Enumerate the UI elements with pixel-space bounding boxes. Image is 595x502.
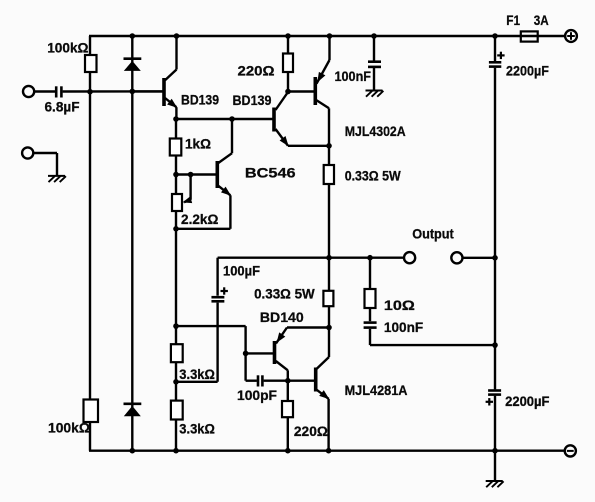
- wire node B vertical x245: [244, 326, 246, 381]
- label C6 2200uF: [506, 64, 549, 80]
- wire node B horizontal y326: [176, 325, 246, 327]
- node junction 3: [285, 33, 291, 39]
- resistor R3 220R: [283, 54, 293, 73]
- wire right supply column x495: [494, 36, 496, 451]
- label C7 2200uF: [505, 394, 550, 410]
- diode D2: [124, 404, 142, 417]
- svg-text:3.3kΩ: 3.3kΩ: [179, 367, 215, 383]
- wire main output column x329: [328, 146, 330, 328]
- svg-text:0.33Ω 5W: 0.33Ω 5W: [345, 169, 402, 185]
- terminal V+ plus: [565, 30, 577, 42]
- ground bottom right: [486, 481, 504, 487]
- terminal output left: [404, 252, 415, 263]
- wire Q6 base: [288, 380, 314, 382]
- label R5 2.2k: [181, 212, 218, 228]
- node junction 10: [229, 116, 235, 122]
- wire Q6 emitter: [317, 390, 330, 451]
- node junction 6: [492, 33, 498, 39]
- node junction 15: [173, 226, 179, 232]
- svg-text:2.2kΩ: 2.2kΩ: [181, 212, 218, 228]
- svg-text:BC546: BC546: [245, 166, 296, 182]
- plus C7: [486, 398, 493, 405]
- wire R5 wiper: [183, 175, 193, 204]
- transistor Q3 BC546 bar: [216, 161, 220, 188]
- capacitor C2 100nF plates: [368, 62, 381, 67]
- ground input: [48, 176, 66, 182]
- node junction 16: [326, 255, 332, 261]
- svg-text:100kΩ: 100kΩ: [47, 40, 88, 56]
- wire 220R top to rail: [287, 36, 289, 92]
- transistor Q4 BD140 bar: [273, 341, 277, 364]
- terminal input ground: [22, 147, 33, 158]
- plus C6: [497, 52, 504, 59]
- label R2 100k: [48, 421, 90, 437]
- label R1 100k: [47, 40, 88, 56]
- svg-text:MJL4281A: MJL4281A: [345, 383, 408, 399]
- node junction 22: [285, 378, 291, 384]
- label C3 100uF: [223, 264, 260, 280]
- node junction 27: [285, 448, 291, 454]
- capacitor C1 6.8uF plates: [56, 86, 61, 97]
- wire Q4 emitter: [276, 328, 329, 344]
- node junction 24: [492, 342, 498, 348]
- resistor R11 220R: [282, 401, 293, 417]
- transistor Q5 MJL4302A bar: [313, 77, 317, 105]
- wire Q6 collector: [317, 328, 329, 369]
- wire 100nF bypass lead: [373, 36, 375, 90]
- label R6 0.33R 5W: [345, 169, 402, 185]
- label R3 220R: [238, 64, 275, 80]
- capacitor C6 2200uF plates: [489, 62, 501, 66]
- label R9 3.3k: [179, 422, 215, 438]
- wire zobel return: [370, 344, 495, 346]
- wire input2 to ground: [34, 153, 57, 176]
- svg-text:220Ω: 220Ω: [294, 424, 328, 440]
- terminal output right: [451, 252, 462, 263]
- label Q5 MJL4302A: [345, 124, 406, 140]
- label Q6 MJL4281A: [345, 383, 408, 399]
- wire feedback node to 100uF: [176, 381, 218, 383]
- ground C2: [366, 91, 384, 97]
- node junction 25: [130, 448, 136, 454]
- svg-text:6.8µF: 6.8µF: [45, 100, 80, 116]
- node junction 2: [174, 33, 180, 39]
- wire Q4 base: [246, 352, 273, 354]
- node junction 20: [243, 351, 249, 357]
- label Q3 BC546: [245, 166, 296, 182]
- wire 220R2 column: [287, 381, 289, 451]
- wire Q2 collector: [276, 92, 289, 110]
- capacitor C3 100uF plates: [211, 297, 224, 301]
- resistor R2 100k bottom: [84, 400, 99, 423]
- node junction 7: [87, 89, 93, 95]
- node junction 29: [492, 448, 498, 454]
- transistor Q1 BD139 bar: [162, 78, 166, 106]
- node junction 5: [371, 33, 377, 39]
- svg-text:BD139: BD139: [233, 93, 272, 109]
- diode D1: [124, 59, 142, 71]
- resistor R4 1k: [170, 139, 182, 156]
- label Q2 BD139: [233, 93, 272, 109]
- label R10 0.33R 5W: [254, 286, 315, 302]
- label R4 1k: [185, 137, 211, 153]
- svg-text:F1: F1: [506, 13, 520, 29]
- node junction 9: [173, 116, 179, 122]
- wire Q3 base: [176, 173, 216, 175]
- resistor R9 3.3k: [171, 401, 183, 420]
- svg-text:100kΩ: 100kΩ: [48, 421, 90, 437]
- wire output line: [218, 257, 405, 259]
- resistor R10 0.33R: [323, 291, 333, 306]
- node junction 28: [326, 448, 332, 454]
- node junction 11: [285, 89, 291, 95]
- node junction 18: [492, 255, 498, 261]
- wire diode column: [131, 36, 133, 451]
- capacitor C4 100nF plates: [364, 323, 377, 328]
- terminal V- minus: [565, 445, 576, 456]
- node junction 1: [130, 33, 136, 39]
- wire Q5 collector: [317, 100, 330, 146]
- node junction 19: [173, 323, 179, 329]
- wire bottom right ground lead: [494, 451, 496, 481]
- svg-text:0.33Ω 5W: 0.33Ω 5W: [254, 286, 315, 302]
- label C2 100nF: [335, 69, 372, 85]
- svg-text:1kΩ: 1kΩ: [185, 137, 211, 153]
- wire Q1 base: [133, 90, 163, 92]
- svg-text:3A: 3A: [534, 13, 549, 29]
- transistor Q2 BD139 bar: [272, 108, 276, 132]
- svg-text:BD140: BD140: [260, 310, 304, 326]
- label C5 100pF: [237, 388, 277, 404]
- capacitor C7 2200uF plates: [488, 391, 501, 395]
- label C1 6.8uF: [45, 100, 80, 116]
- resistor R6 0.33R: [324, 165, 334, 184]
- label Output: [412, 227, 454, 243]
- label Q1 BD139: [181, 93, 219, 109]
- transistor Q6 MJL4281A bar: [314, 368, 318, 392]
- svg-text:2200µF: 2200µF: [506, 64, 549, 80]
- label Q4 BD140: [260, 310, 304, 326]
- label R11 220R: [294, 424, 328, 440]
- wire Q5 emitter from rail: [317, 36, 330, 84]
- wire input line: [34, 90, 162, 92]
- label R7 10R: [384, 298, 415, 314]
- wire node A vertical x176: [175, 119, 177, 451]
- label F1 3A: [506, 13, 548, 29]
- svg-text:3.3kΩ: 3.3kΩ: [179, 422, 215, 438]
- svg-text:MJL4302A: MJL4302A: [345, 124, 406, 140]
- wire 100pF line: [246, 380, 288, 382]
- node junction 21: [173, 379, 179, 385]
- label R8 3.3k: [179, 367, 215, 383]
- svg-text:100µF: 100µF: [223, 264, 260, 280]
- wire Q3 collector: [218, 119, 232, 163]
- wire Q1 emitter: [165, 98, 177, 119]
- node junction 17: [367, 255, 373, 261]
- node junction 4: [327, 33, 333, 39]
- node junction 8: [130, 89, 136, 95]
- fuse F1: [521, 31, 538, 41]
- resistor R8 3.3k: [171, 344, 183, 362]
- node junction 14: [188, 172, 194, 178]
- node junction 13: [173, 172, 179, 178]
- wire Q2 emitter: [276, 129, 330, 146]
- resistor R1 100k top: [85, 55, 97, 72]
- wire top positive rail V+: [89, 35, 565, 37]
- svg-text:100nF: 100nF: [384, 320, 424, 336]
- svg-text:Output: Output: [412, 227, 454, 243]
- wire 100uF lead down: [216, 258, 218, 382]
- node junction 26: [173, 448, 179, 454]
- svg-text:220Ω: 220Ω: [238, 64, 275, 80]
- wire Q2/220R junction to MJL4302A base: [288, 90, 314, 92]
- wire Q4 collector: [276, 361, 288, 381]
- potentiometer R5 2.2k body: [172, 194, 182, 211]
- label C4 100nF: [384, 320, 424, 336]
- svg-text:10Ω: 10Ω: [384, 298, 415, 314]
- wire left 100k column: [89, 36, 91, 451]
- resistor R7 10R: [365, 289, 376, 308]
- node junction 12: [326, 143, 332, 149]
- wire Q3 emitter: [176, 186, 231, 229]
- wire bottom negative rail V-: [89, 450, 565, 452]
- svg-text:100nF: 100nF: [335, 69, 372, 85]
- wire Q1 collector: [165, 36, 177, 80]
- svg-text:BD139: BD139: [181, 93, 219, 109]
- svg-text:2200µF: 2200µF: [505, 394, 550, 410]
- wire right output to supply column: [462, 257, 495, 259]
- capacitor C5 100pF plates: [258, 375, 262, 386]
- wire zobel branch: [369, 258, 371, 345]
- svg-text:100pF: 100pF: [237, 388, 277, 404]
- node junction 23: [326, 325, 332, 331]
- wire BD139 Q2 base line: [176, 118, 273, 120]
- terminal input signal: [23, 86, 34, 97]
- plus C3: [221, 287, 228, 294]
